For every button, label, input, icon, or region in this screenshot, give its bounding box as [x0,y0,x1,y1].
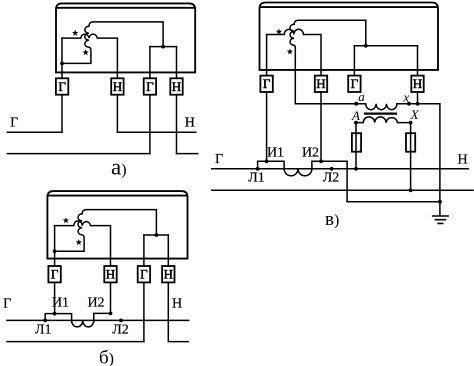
voltage coil L2 (shunt winding) with lead out of box to VT terminal a [290,20,356,103]
wire: И2 bracket to winding end and down to earth line [312,161,347,201]
wire: terminal Г1 riser into box [61,38,63,78]
svg-text:Н: Н [185,116,195,131]
wire: terminal Н2 down to load phase line [116,95,118,133]
wire: terminal Г1 down to CT secondary И1 [54,282,56,313]
wire: И2 bracket to CT winding end [94,313,111,320]
svg-text:Н: Н [106,267,115,282]
terminal Н2 (box) [315,76,327,92]
wire: terminal Г1 riser into box [54,226,56,266]
node Л2 dot [330,167,334,171]
meter box W1 lid line [56,7,195,9]
wire: bar to terminal Г3 [143,235,145,266]
svg-text:x: x [402,89,409,104]
svg-text:Н: Н [413,76,422,91]
current coil L1 (series winding with lead to terminal Н2) [55,221,111,266]
junction dot on voltage link bar [155,233,159,237]
current transformer TA1 primary winding [72,320,94,327]
voltage transformer TV1 core [364,112,397,114]
wire: load phase line (right segment) [117,131,195,133]
svg-text:Г: Г [215,152,223,167]
svg-text:И1: И1 [267,146,284,161]
wire: И1 jumper bracket to line terminal Л1 [45,314,71,321]
svg-text:Г: Г [10,116,18,131]
wire: И1 jumper bracket to line terminal Л1 [258,161,285,169]
wire: fuse FU1 through-wire to phase line [355,133,357,169]
wire: neutral line [212,189,473,191]
terminal Н2 (box) [111,78,123,94]
svg-text:И2: И2 [302,146,319,161]
node А dot [354,121,358,125]
svg-text:Г: Г [3,297,11,312]
svg-text:Л2: Л2 [323,171,340,186]
wire: terminal Г1 down to phase line [61,95,63,133]
node Л1 dot [43,319,47,323]
wire: А down to fuse FU1 [355,123,357,134]
wire: earthing line [347,201,440,203]
svg-text:Н: Н [457,152,467,167]
wire: terminal Н4 down to VT secondary x [417,92,419,104]
meter box W2 [47,191,187,259]
wire: link bar joining terminals Г3 and Н4 [144,234,168,236]
polarity star of current coil [276,28,282,34]
node И1 junction dot [53,312,57,316]
wire: bar to terminal Н4 [167,235,169,266]
svg-text:Н: Н [113,79,122,94]
fuse FU2 [406,133,415,152]
current coil L1 (series winding with lead to terminal Н2) [62,34,117,78]
svg-text:А: А [351,108,360,123]
terminal Н4 (box) [411,76,423,92]
svg-text:Л2: Л2 [112,323,129,338]
terminal Г3 (box) [138,266,150,282]
wire: X down to fuse FU2 [410,123,412,134]
svg-text:X: X [410,107,420,122]
wire: link bar joining terminals Г3 and Н4 [354,45,417,47]
wire: bar to terminal Н4 [417,46,419,76]
svg-text:в): в) [325,209,339,230]
terminal Н2 (box) [104,266,116,282]
wire: phase line Л1-Л2 [212,168,469,170]
svg-text:Л1: Л1 [35,323,52,338]
terminal Г3 (box) [144,78,156,94]
terminal Н4 (box) [162,266,174,282]
meter box W2 lid line [47,195,187,197]
wire: voltage coil top loop to voltage terminals [93,22,163,47]
svg-text:б): б) [99,348,114,366]
voltage coil L2 (shunt winding, vertical) with bottom lead [55,210,87,252]
wire: terminal Г3 down to neutral line [149,95,151,154]
svg-text:Г: Г [140,267,148,282]
svg-text:Н: Н [172,297,182,312]
junction dot on Г1 riser [53,249,57,253]
wire: neutral line (left segment) [7,153,150,155]
svg-text:И1: И1 [52,296,69,311]
meter box W3 lid line [260,6,439,8]
terminal Г1 (box) [260,76,272,92]
wire: terminal Н2 down to CT secondary И2 [110,282,112,313]
polarity star of voltage coil [82,49,88,55]
node И2 junction dot [109,312,113,316]
junction dot terminal Н4 to secondary wire [416,102,420,106]
node И1 junction dot [265,159,269,163]
wire: voltage coil top loop [298,20,366,46]
terminal Г1 (box) [48,266,60,282]
wire: bar to terminal Г3 [149,47,151,79]
polarity star of voltage coil [76,239,82,245]
voltage transformer TV1 secondary winding a-x with wire to ground lead [356,104,440,202]
polarity star of voltage coil [287,48,293,54]
fuse FU1 [352,133,361,152]
wire: bar to terminal Г3 [353,46,355,76]
polarity star of current coil [72,30,78,36]
wire: terminal Н4 down and right (neutral to load) [168,282,188,341]
wire: terminal Н2 down to CT secondary И2 [320,92,322,161]
terminal Г1 (box) [56,78,68,94]
svg-text:а): а) [111,155,127,180]
ground symbol (earth) [432,216,449,223]
polarity star of current coil [63,217,69,223]
node a dot [354,102,358,106]
wire: bar to terminal Н4 [176,47,178,79]
junction dot fuse FU1 to phase line [354,167,358,171]
node Л2 dot [119,319,123,323]
meter box W1 [56,3,195,72]
svg-text:Г: Г [146,79,154,94]
terminal Н4 (box) [170,78,182,94]
wire: terminal Г3 down to neutral line [143,282,145,341]
svg-text:Г: Г [263,76,271,91]
terminal Г3 (box) [348,76,360,92]
svg-text:И2: И2 [87,296,104,311]
wire: neutral line (left segment) [7,341,144,343]
svg-text:Л1: Л1 [248,171,265,186]
svg-text:Н: Н [164,267,173,282]
wire: fuse FU2 through-wire to neutral line [410,133,412,190]
node X dot [409,121,413,125]
wire: ground stem [439,202,441,216]
node И2 junction dot [319,159,323,163]
wire: phase line Л1-Л2 [7,319,189,321]
wire: terminal Н4 down to neutral stub [176,95,178,154]
svg-text:Н: Н [316,76,325,91]
svg-text:а: а [358,89,365,104]
meter box W3 [260,3,439,70]
wire: terminal Г1 riser into box [266,35,268,76]
node Л1 dot [256,167,260,171]
svg-text:Н: Н [172,79,181,94]
wire: terminal Г1 down to CT secondary И1 [266,92,268,161]
voltage coil L2 (shunt winding, vertical) with bottom lead to node A [62,22,93,64]
svg-text:Г: Г [58,79,66,94]
node A junction dot on Г1 riser [60,62,64,66]
wire: link bar joining terminals Г3 and Н4 [150,46,177,48]
svg-text:Г: Г [51,267,59,282]
junction dot on voltage link bar [161,45,165,49]
current coil L1 (series winding with lead to terminal Н2) [267,29,321,75]
wire: generator phase line (left segment) [7,131,62,133]
junction dot on voltage link bar [364,44,368,48]
node x dot [407,102,411,106]
junction dot fuse FU2 to neutral line [409,188,413,192]
wire: voltage coil top loop to voltage terminals [86,210,156,235]
voltage transformer TV1 primary winding А-X [356,117,411,123]
current transformer TA2 primary winding [284,169,312,176]
junction dot of earthing line and VT ground lead [438,200,442,204]
wire: neutral line (right segment) [177,153,198,155]
